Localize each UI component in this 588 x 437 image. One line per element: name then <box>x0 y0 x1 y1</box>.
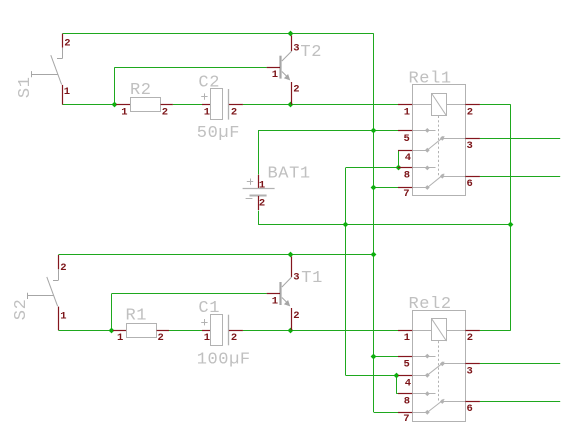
relay Rel1 pin 1 <box>398 104 412 106</box>
wire C1.2 to T1 emitter to Rel2 pin 1 <box>243 330 398 332</box>
svg-text:2: 2 <box>158 332 164 344</box>
relay Rel1 pin 7 contact <box>412 187 427 189</box>
transistor T2 collector lead <box>282 51 292 61</box>
svg-text:1: 1 <box>259 179 265 191</box>
svg-text:1: 1 <box>404 107 410 119</box>
wire R1.2 to C1.1 <box>169 330 202 332</box>
svg-text:2: 2 <box>293 84 299 96</box>
svg-text:1: 1 <box>204 107 210 119</box>
svg-text:C1: C1 <box>198 299 220 318</box>
relay Rel1 pin 5 contact <box>412 130 435 132</box>
wire R2.2 to C2.1 <box>173 104 203 106</box>
resistor R1 pin 2 <box>157 330 169 332</box>
relay Rel1 coil left lead <box>412 104 431 106</box>
transistor T2 emitter lead <box>282 72 289 79</box>
wire Rel2 pin 4 row <box>346 375 399 377</box>
relay Rel2 body <box>413 311 466 422</box>
resistor R2 body <box>131 98 161 112</box>
relay Rel1 switch lever 1 <box>427 136 444 150</box>
relay Rel2 pin 4 contact <box>412 375 427 377</box>
svg-text:Rel1: Rel1 <box>409 70 452 89</box>
resistor R1 body <box>127 324 157 338</box>
wire C2.2 to T2 emitter to Rel1 pin 1 <box>243 104 398 106</box>
svg-text:100µF: 100µF <box>197 351 251 370</box>
svg-text:50µF: 50µF <box>197 124 240 143</box>
wire S2.1 to node R1.1 <box>58 330 113 332</box>
relay Rel1 pin 6 <box>465 176 480 178</box>
relay Rel2 armature link dashed <box>438 341 440 402</box>
resistor R2 pin 1 <box>116 104 131 106</box>
svg-text:3: 3 <box>467 140 473 152</box>
svg-text:8: 8 <box>404 170 410 182</box>
wire S1.1 to node R2.1 <box>62 104 116 106</box>
junction Rel2 pin4-pin8 <box>394 373 400 379</box>
svg-text:2: 2 <box>259 198 265 210</box>
junction T1 collector <box>288 252 294 258</box>
relay Rel1 pin 4 contact <box>412 150 427 152</box>
capacitor C2 plus sign <box>201 96 207 98</box>
svg-text:8: 8 <box>404 396 410 408</box>
wire Rel2 jumper to pin 8 <box>396 393 399 395</box>
svg-text:1: 1 <box>204 332 210 344</box>
relay Rel2 coil <box>432 319 447 341</box>
svg-text:R1: R1 <box>126 307 148 326</box>
relay Rel2 pin 2 <box>465 330 480 332</box>
transistor T2 base pin 1 <box>267 67 280 69</box>
svg-text:2: 2 <box>231 107 237 119</box>
junction Rel2 pin5 <box>371 354 377 360</box>
relay Rel2 pin 3 <box>465 363 480 365</box>
transistor T1 base pin 1 <box>267 293 280 295</box>
wire T2 base vertical drop <box>114 68 116 105</box>
capacitor C1 minus plate <box>228 315 230 346</box>
svg-text:S1: S1 <box>16 76 35 98</box>
junction BAT- / x511 rail <box>508 222 514 228</box>
svg-text:1: 1 <box>117 332 123 344</box>
capacitor C2 pin 1 <box>202 104 211 106</box>
wire Rel1 pin 7 branch <box>374 187 398 189</box>
switch S1 fixed contact <box>62 48 64 59</box>
svg-text:2: 2 <box>293 310 299 322</box>
resistor R1 pin 1 <box>113 330 127 332</box>
svg-text:3: 3 <box>467 366 473 378</box>
relay Rel1 coil diagonal <box>432 93 447 115</box>
wire net VCC top rail S1.2 to T2 collector to corner <box>62 33 373 35</box>
capacitor C2 minus plate <box>228 89 230 120</box>
svg-text:1: 1 <box>60 310 66 322</box>
relay Rel2 switch lever 1 <box>427 362 444 375</box>
wire T1 base horizontal <box>112 293 267 295</box>
svg-text:1: 1 <box>64 86 70 98</box>
wire BAT1 plus vertical <box>258 130 260 174</box>
switch S2 actuator <box>28 295 54 297</box>
switch S1 pin 1 <box>62 85 64 105</box>
relay Rel1 pin 3 <box>465 138 480 140</box>
relay Rel2 coil diagonal <box>432 319 447 341</box>
svg-text:R2: R2 <box>130 81 152 100</box>
svg-text:1: 1 <box>121 106 127 118</box>
svg-text:7: 7 <box>403 413 409 425</box>
relay Rel2 pin 4 <box>398 375 412 377</box>
transistor T2 collector pin 3 <box>291 36 293 52</box>
resistor R2 pin 2 <box>161 104 173 106</box>
relay Rel1 pin 8 contact <box>412 167 435 169</box>
junction Rel1 pin4-pin8 <box>396 165 402 171</box>
capacitor C1 plus sign <box>201 322 207 324</box>
relay Rel2 coil left lead <box>412 330 431 332</box>
transistor T1 collector pin 3 <box>291 257 293 278</box>
svg-text:5: 5 <box>404 359 410 371</box>
battery BAT1 minus sign <box>246 198 253 200</box>
junction T2 base / R2.1 <box>112 102 118 108</box>
relay Rel2 pin 8 <box>398 393 412 395</box>
capacitor C1 pin 1 <box>202 330 211 332</box>
wire Rel1 pin 8 row <box>346 167 399 169</box>
wire T1 base vertical drop <box>111 293 113 330</box>
svg-text:1: 1 <box>272 69 278 81</box>
svg-text:1: 1 <box>404 332 410 344</box>
switch S2 pin 1 <box>58 307 60 331</box>
svg-text:7: 7 <box>403 188 409 200</box>
relay Rel2 pin 7 <box>398 412 412 414</box>
svg-text:1: 1 <box>272 295 278 307</box>
svg-text:3: 3 <box>293 271 299 283</box>
wire vertical x=511 Rel1.2 to Rel2.2 <box>510 105 512 331</box>
relay Rel1 pin 6 contact <box>442 176 465 178</box>
transistor T1 emitter lead <box>282 298 289 305</box>
junction BAT+ / Rel1.5 <box>371 128 377 134</box>
svg-text:S2: S2 <box>12 299 31 321</box>
svg-text:4: 4 <box>405 377 411 389</box>
wire Rel2 pin 5 branch <box>374 356 398 358</box>
svg-text:4: 4 <box>405 152 411 164</box>
junction BAT- / x345 rail <box>343 222 349 228</box>
switch S1 pin 2 <box>62 34 64 48</box>
junction bottom rail / x374 <box>371 252 377 258</box>
relay Rel2 pin 5 <box>398 356 412 358</box>
transistor T1 emitter arrow <box>284 300 290 306</box>
battery BAT1 plus plate <box>243 188 275 190</box>
svg-text:T2: T2 <box>300 43 322 62</box>
capacitor C2 plus plate <box>211 89 223 120</box>
relay Rel1 switch lever 2 <box>427 174 444 188</box>
relay Rel1 pin 5 <box>398 130 412 132</box>
wire Rel1 pin 2 to right corner <box>480 104 511 106</box>
relay Rel2 pin 3 contact <box>442 363 465 365</box>
relay Rel2 pin 1 <box>398 330 412 332</box>
wire Rel1 pin 6 output <box>480 176 560 178</box>
relay Rel1 coil <box>432 94 447 116</box>
switch S2 fixed contact <box>58 269 60 280</box>
battery BAT1 minus plate <box>250 195 267 197</box>
capacitor C1 pin 2 <box>229 330 243 332</box>
junction T1 emitter <box>288 328 294 334</box>
wire BAT1 minus vertical <box>258 211 260 225</box>
switch S2 pin 2 <box>58 255 60 269</box>
wire Rel2 pin 4 to pin 8 jumper <box>396 375 398 393</box>
transistor T2 emitter pin 2 <box>291 82 293 105</box>
battery BAT1 pin 1 <box>258 175 260 188</box>
capacitor C1 plus plate <box>211 315 223 346</box>
svg-text:6: 6 <box>467 403 473 415</box>
wire net VCC vertical x=374 top to Rel2 pin7 corner <box>373 34 375 413</box>
svg-text:T1: T1 <box>301 269 323 288</box>
transistor T2 base bar <box>279 56 281 79</box>
relay Rel1 pin 4 <box>398 150 412 152</box>
wire vertical x=345 Rel1.8 to Rel2.4 <box>345 168 347 375</box>
junction T2 emitter <box>288 102 294 108</box>
relay Rel2 switch lever 2 <box>427 399 444 412</box>
wire bottom rail S2.2 to T1 collector to x=374 <box>58 254 373 256</box>
relay Rel2 pin 7 contact <box>412 412 427 414</box>
relay Rel2 coil right lead <box>447 330 466 332</box>
junction Rel1 pin7 <box>371 185 377 191</box>
relay Rel2 pin 8 contact <box>412 393 435 395</box>
relay Rel2 pin 6 <box>465 401 480 403</box>
switch S1 lever arm <box>51 55 62 84</box>
wire BAT1 plus to Rel1 pin 5 rail <box>258 130 398 132</box>
wire Rel1 pin 4 to pin 8 jumper <box>398 150 400 168</box>
relay Rel1 body <box>413 85 466 196</box>
relay Rel1 pin 2 <box>465 104 480 106</box>
junction T1 base / R1.1 <box>109 328 115 334</box>
svg-text:2: 2 <box>162 106 168 118</box>
transistor T2 emitter arrow <box>284 74 290 80</box>
wire T2 base horizontal <box>114 67 266 69</box>
svg-text:2: 2 <box>467 107 473 119</box>
svg-text:C2: C2 <box>198 73 220 92</box>
junction T2 collector <box>288 31 294 37</box>
switch S2 lever arm <box>47 277 58 306</box>
svg-text:2: 2 <box>64 37 70 49</box>
battery BAT1 pin 2 <box>258 196 260 210</box>
svg-text:BAT1: BAT1 <box>268 164 311 183</box>
wire BAT1 minus horizontal to x=511 <box>258 224 511 226</box>
svg-text:2: 2 <box>467 332 473 344</box>
transistor T1 base bar <box>279 282 281 305</box>
svg-text:5: 5 <box>404 133 410 145</box>
relay Rel1 pin 7 <box>398 187 412 189</box>
transistor T1 collector lead <box>282 277 292 287</box>
wire net VCC to Rel2 pin 7 <box>374 412 399 414</box>
wire Rel1 pin 3 output <box>480 138 560 140</box>
svg-text:6: 6 <box>467 178 473 190</box>
transistor T1 emitter pin 2 <box>291 308 293 330</box>
relay Rel1 armature link dashed <box>438 116 440 177</box>
svg-text:2: 2 <box>231 332 237 344</box>
battery BAT1 plus sign <box>247 181 253 183</box>
wire Rel2 pin 3 output <box>480 363 560 365</box>
relay Rel2 pin 5 contact <box>412 356 435 358</box>
relay Rel2 pin 6 contact <box>442 401 465 403</box>
relay Rel1 coil right lead <box>447 104 466 106</box>
wire Rel2 pin 2 corner <box>480 330 511 332</box>
relay Rel1 pin 3 contact <box>442 138 465 140</box>
relay Rel1 pin 8 <box>398 167 412 169</box>
switch S1 actuator <box>32 74 58 76</box>
wire Rel2 pin 6 output <box>480 401 560 403</box>
capacitor C2 pin 2 <box>229 104 243 106</box>
svg-text:2: 2 <box>60 262 66 274</box>
svg-text:3: 3 <box>293 42 299 54</box>
